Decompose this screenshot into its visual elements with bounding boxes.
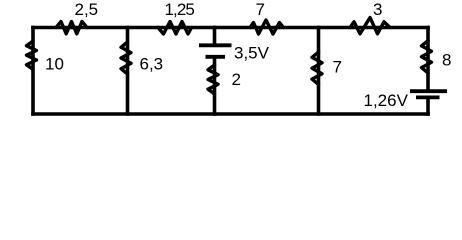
resistor R4 3 xyxy=(350,18,390,34)
resistor R5 10 left branch xyxy=(27,41,37,70)
svg-text:6,3: 6,3 xyxy=(140,55,164,74)
voltage source V2 1,26V plate long xyxy=(410,89,447,93)
resistor R8 7 branch 4 xyxy=(312,52,322,85)
wire right branch lower xyxy=(426,97,430,114)
svg-text:8: 8 xyxy=(442,51,451,70)
svg-text:7: 7 xyxy=(333,58,342,77)
resistor R2 1,25 xyxy=(158,22,192,35)
voltage source V2 1,26V plate short xyxy=(416,96,440,100)
voltage source V1 3,5V plate long xyxy=(199,43,232,47)
svg-text:2: 2 xyxy=(232,70,241,89)
resistor R9 8 right branch xyxy=(422,41,432,74)
wire branch 3 lower xyxy=(213,57,217,114)
svg-text:3,5V: 3,5V xyxy=(234,44,270,63)
resistor R3 7 xyxy=(250,20,284,34)
wire bottom rail xyxy=(33,112,428,116)
svg-text:7: 7 xyxy=(256,0,265,19)
wire top rail xyxy=(33,26,428,30)
svg-text:1,25: 1,25 xyxy=(165,0,195,19)
svg-text:3: 3 xyxy=(373,0,382,19)
svg-text:1,26V: 1,26V xyxy=(364,91,409,110)
svg-text:2,5: 2,5 xyxy=(75,0,99,19)
wire branch 4 xyxy=(317,28,321,115)
wire branch 2 xyxy=(126,28,130,115)
wire branch 3 upper xyxy=(213,28,217,45)
svg-text:10: 10 xyxy=(45,55,64,74)
resistor R6 6,3 branch 2 xyxy=(121,42,131,74)
resistor R1 2,5 xyxy=(56,22,87,34)
wire right branch upper xyxy=(426,28,430,91)
resistor R7 2 branch 3 xyxy=(208,65,218,94)
wire left branch xyxy=(31,28,35,115)
voltage source V1 3,5V plate short xyxy=(206,55,226,59)
